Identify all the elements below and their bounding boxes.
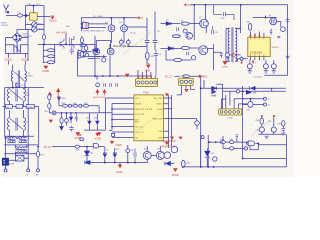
varistor RV1 bbox=[32, 22, 37, 27]
transformer T5 core bbox=[232, 27, 233, 62]
net arrow down bbox=[60, 127, 64, 130]
svg-text:275V: 275V bbox=[38, 28, 43, 30]
svg-text:SG3525: SG3525 bbox=[272, 47, 280, 49]
antenna E1 bbox=[4, 5, 9, 14]
wire bbox=[253, 16, 281, 27]
svg-text:Q21: Q21 bbox=[157, 149, 161, 151]
capacitor C4 bbox=[70, 47, 74, 55]
transformer T2 core bbox=[13, 70, 24, 82]
right feeder vertical bbox=[38, 107, 40, 147]
electrolytic C26 bbox=[263, 64, 268, 69]
label box LF2 bbox=[16, 105, 23, 109]
svg-text:+12V: +12V bbox=[252, 93, 257, 95]
svg-text:C26 100u: C26 100u bbox=[254, 77, 262, 79]
capacitor C31 bbox=[79, 104, 82, 107]
label box LF3 bbox=[26, 105, 34, 109]
wire bbox=[161, 47, 169, 49]
gnd sym2 bbox=[264, 71, 268, 74]
wire bbox=[25, 6, 27, 16]
svg-text:ACIN1: ACIN1 bbox=[5, 59, 13, 62]
transistor Q23 bbox=[171, 146, 178, 153]
svg-text:GND: GND bbox=[145, 69, 151, 72]
dbox DB1 bbox=[93, 144, 98, 148]
rail +HV bbox=[190, 4, 287, 6]
transistor Q10 bbox=[281, 27, 286, 32]
red pwr arrow AGND ic-left bbox=[96, 90, 99, 96]
svg-text:Q20: Q20 bbox=[144, 149, 148, 151]
long bottom bus bbox=[183, 166, 287, 168]
junction bbox=[37, 146, 39, 148]
lower snubber bus bbox=[59, 112, 99, 114]
wire bbox=[87, 147, 148, 163]
pwm controller U3 bbox=[248, 37, 270, 56]
junction bbox=[33, 5, 35, 7]
capacitor C6 bbox=[96, 56, 100, 58]
resistor R61 bbox=[229, 141, 234, 144]
transformer T2 winding left bbox=[11, 65, 12, 82]
diode D5 bbox=[161, 22, 171, 25]
svg-text:R41: R41 bbox=[76, 149, 79, 151]
resistor R15 bbox=[47, 49, 55, 52]
zener diamond D7 bbox=[240, 57, 244, 61]
svg-text:SG3525AN: SG3525AN bbox=[250, 51, 262, 54]
resistor R45 bbox=[183, 75, 190, 78]
svg-text:AGND: AGND bbox=[95, 138, 102, 141]
zener ZD1 bbox=[103, 151, 107, 157]
diode D6 bbox=[168, 47, 173, 50]
optocoupler U5 bbox=[29, 13, 37, 20]
cm choke circle bbox=[236, 90, 239, 93]
red gnd sec bbox=[223, 61, 228, 65]
wire bbox=[5, 82, 44, 88]
junction row bbox=[94, 75, 96, 77]
mosfet Q3 bbox=[108, 25, 115, 32]
comp above agnd bbox=[112, 133, 115, 136]
capacitor C61 bbox=[126, 149, 130, 153]
wire bbox=[17, 28, 44, 30]
svg-text:Q7: Q7 bbox=[199, 17, 202, 19]
choke L6 winding a bbox=[19, 137, 27, 138]
choke L7 winding b bbox=[15, 151, 27, 154]
wire row3 bbox=[4, 136, 38, 169]
gnd sym1 bbox=[248, 71, 252, 74]
stack C cap C52 bbox=[282, 126, 285, 132]
svg-text:R5: R5 bbox=[181, 20, 183, 22]
svg-text:BUXO: BUXO bbox=[157, 104, 163, 106]
junction dots bottom rail bbox=[104, 162, 106, 164]
electrolytic C27 bbox=[271, 64, 276, 69]
svg-text:BUS0 PGND: BUS0 PGND bbox=[93, 97, 106, 99]
top rail bbox=[26, 5, 44, 7]
resistor R16 bbox=[47, 55, 55, 58]
red dot stack B bbox=[273, 115, 275, 117]
svg-text:ACT: ACT bbox=[135, 121, 140, 124]
capacitor C62 bbox=[134, 149, 136, 163]
junction dots snubber bus bbox=[61, 112, 62, 113]
gnd sym3 bbox=[272, 71, 276, 74]
junction dots ladder bbox=[208, 141, 210, 143]
junction bbox=[258, 143, 260, 145]
svg-text:D20: D20 bbox=[86, 118, 89, 120]
capacitor C33 bbox=[69, 126, 73, 132]
wire bbox=[38, 29, 95, 63]
wire loop bbox=[250, 143, 287, 149]
svg-text:PGND: PGND bbox=[172, 175, 179, 177]
svg-text:10D471K: 10D471K bbox=[23, 36, 32, 38]
svg-text:+BUS1: +BUS1 bbox=[49, 20, 57, 22]
svg-text:BLKIN: BLKIN bbox=[135, 103, 142, 105]
capacitor C23 bbox=[270, 29, 272, 35]
wire bbox=[28, 15, 30, 17]
header CON3 bbox=[179, 78, 194, 85]
wire bbox=[6, 45, 29, 58]
terminal PE1 bbox=[4, 169, 7, 172]
wire bbox=[58, 100, 60, 105]
svg-text:Q9: Q9 bbox=[269, 15, 272, 17]
diode D10 bbox=[212, 87, 217, 90]
pwm controller U3 pins top bbox=[250, 32, 264, 38]
capacitor C21 bbox=[177, 27, 179, 31]
wire bbox=[237, 58, 248, 60]
zener ZD2 bbox=[113, 151, 117, 157]
svg-text:+VDD: +VDD bbox=[61, 98, 67, 100]
svg-text:C9: C9 bbox=[159, 54, 161, 56]
connector J1 bbox=[2, 158, 8, 165]
wire bbox=[6, 29, 29, 44]
wire acin leads bbox=[9, 61, 26, 65]
transistor Q8 bbox=[186, 33, 193, 40]
red pwr flag1 bbox=[48, 92, 51, 99]
resistor R41 bbox=[75, 145, 80, 148]
svg-text:ACIN: ACIN bbox=[9, 162, 14, 165]
wire bbox=[190, 47, 199, 49]
svg-text:CON3: CON3 bbox=[180, 76, 185, 78]
terminal J2 bbox=[263, 97, 266, 100]
svg-text:TON CLB: TON CLB bbox=[135, 114, 145, 116]
stack C gnd bbox=[281, 133, 285, 136]
resistor R19 bbox=[85, 46, 88, 51]
svg-text:MDE OVL IPK IPK: MDE OVL IPK IPK bbox=[135, 109, 153, 111]
resistor R21 bbox=[80, 52, 83, 57]
wire bbox=[62, 113, 67, 126]
node LIN square bbox=[7, 11, 9, 13]
electrolytic C17 bbox=[126, 40, 130, 44]
choke L5 core bbox=[7, 138, 15, 141]
choke L7 core bbox=[15, 148, 27, 151]
svg-text:D5: D5 bbox=[166, 20, 168, 22]
diode D30 bbox=[85, 151, 90, 155]
relay K1 bbox=[83, 23, 89, 29]
diode D3 bbox=[93, 49, 98, 52]
transformer T1 core bbox=[15, 45, 20, 53]
svg-text:T5: T5 bbox=[238, 29, 240, 31]
red gnd ic right bbox=[165, 93, 169, 96]
svg-text:C20: C20 bbox=[221, 18, 224, 20]
wire bbox=[189, 23, 199, 25]
diode D20 bbox=[88, 120, 92, 127]
red gnd left chain bbox=[49, 120, 53, 123]
wire drain link bbox=[96, 41, 110, 58]
capacitor C24 bbox=[277, 36, 280, 37]
red pwr arrow PGND ic-left bbox=[103, 90, 106, 96]
red pwr flag2 bbox=[57, 89, 60, 99]
red ticks terminal block bbox=[138, 76, 140, 78]
diode D22 bbox=[69, 117, 73, 120]
ic U1 right pin labels bbox=[153, 97, 163, 139]
svg-text:R31: R31 bbox=[73, 103, 76, 105]
electrolytic C18 bbox=[102, 58, 106, 62]
svg-text:EE19: EE19 bbox=[28, 76, 34, 78]
transformer T5 winding right bbox=[235, 28, 237, 61]
svg-text:+PUMP_AUX: +PUMP_AUX bbox=[161, 145, 175, 148]
capacitor C30 bbox=[69, 104, 72, 107]
choke L5 winding b bbox=[7, 142, 15, 143]
capacitor C34 bbox=[75, 114, 78, 122]
svg-text:+HV: +HV bbox=[187, 4, 192, 7]
red gnd AGND left IC bbox=[95, 133, 100, 136]
red gnd PGND1 bbox=[44, 66, 49, 69]
wire bbox=[9, 154, 29, 160]
resistor R28 bbox=[48, 95, 51, 100]
junction bbox=[250, 98, 252, 100]
junction bbox=[200, 166, 202, 168]
capacitor C7 bbox=[145, 41, 150, 44]
resistor R18 bbox=[80, 38, 83, 43]
wire feeds into IC bbox=[106, 98, 134, 138]
junction dots bottom bus bbox=[213, 166, 215, 168]
pwm controller U3 pins bottom bbox=[250, 57, 264, 61]
junction bbox=[12, 87, 14, 89]
transistor Q21 bbox=[156, 151, 164, 159]
capacitor C10 bbox=[96, 77, 99, 80]
diode D31 bbox=[165, 162, 170, 166]
svg-text:C62: C62 bbox=[130, 150, 133, 152]
wire con3 pins bbox=[177, 86, 195, 95]
transistor Q12 bbox=[191, 56, 195, 60]
resistor R5 bbox=[181, 22, 189, 25]
transformer T5 winding left bbox=[228, 28, 230, 61]
stack B cap C51 bbox=[271, 127, 276, 132]
bridge rectifier BR1 bbox=[12, 33, 22, 43]
resistor R17 bbox=[47, 61, 55, 64]
wire bbox=[37, 15, 50, 17]
capacitor CY1 box bbox=[16, 83, 20, 87]
svg-text:CON5: CON5 bbox=[228, 117, 233, 119]
svg-text:VCC: VCC bbox=[135, 98, 140, 100]
junction bbox=[81, 23, 83, 25]
svg-text:D32: D32 bbox=[211, 153, 214, 155]
capacitor C63 bbox=[236, 134, 238, 139]
wire drops to terminal bbox=[138, 70, 155, 79]
capacitor CX2 bbox=[16, 137, 18, 138]
transformer T5 leads bbox=[226, 28, 241, 61]
wire right vertical bbox=[27, 29, 29, 61]
capacitor C5 bbox=[85, 53, 89, 57]
transformer T4 core bbox=[10, 118, 23, 131]
capacitor C9 bbox=[154, 50, 158, 76]
svg-text:10D471: 10D471 bbox=[1, 25, 9, 27]
svg-text:C61: C61 bbox=[116, 149, 119, 151]
svg-text:R32: R32 bbox=[84, 103, 87, 105]
wire gate feeds bbox=[78, 44, 111, 76]
wire ac_ct bbox=[175, 75, 200, 77]
inverter gate U2B bbox=[78, 55, 83, 59]
svg-text:LF2: LF2 bbox=[17, 107, 20, 109]
red gnd DCDC bbox=[146, 65, 151, 69]
svg-text:DS1: DS1 bbox=[44, 111, 48, 113]
resistor R10 bbox=[181, 46, 189, 49]
wire output bus B bbox=[223, 90, 286, 92]
capacitor CX3 box bbox=[16, 155, 24, 161]
junction bbox=[111, 17, 113, 19]
svg-text:R61: R61 bbox=[230, 139, 233, 141]
junction bbox=[111, 108, 112, 109]
transformer T4 winding right bbox=[23, 112, 25, 131]
red tick left edge bbox=[79, 134, 81, 136]
svg-text:LGB: LGB bbox=[158, 131, 163, 133]
red label +HV top bbox=[185, 4, 187, 6]
mosfet Q11 bbox=[199, 46, 208, 55]
wire bbox=[26, 16, 44, 30]
svg-text:PGND: PGND bbox=[42, 71, 49, 73]
resistor R11 bbox=[174, 58, 182, 61]
net flag +VDD bbox=[58, 97, 61, 100]
bottom stack bus bbox=[258, 133, 286, 135]
wire bbox=[84, 113, 106, 130]
svg-text:R43: R43 bbox=[187, 162, 190, 164]
resistor R29 bbox=[48, 103, 51, 108]
net flag pennant2 bbox=[246, 90, 250, 94]
choke L6 winding b bbox=[19, 142, 27, 143]
red diamond flag bbox=[232, 53, 236, 57]
resistor R2 bbox=[42, 35, 45, 40]
mid bus bbox=[3, 106, 39, 108]
choke L6 core bbox=[19, 138, 27, 141]
ic U1 left pin labels bbox=[135, 98, 153, 139]
capacitor C29 bbox=[186, 52, 188, 55]
resistor R32 bbox=[84, 104, 89, 107]
cap marks right rail bbox=[286, 20, 290, 58]
red dot stack A bbox=[261, 115, 263, 117]
inductor L1 bbox=[17, 14, 22, 17]
svg-text:VGB: VGB bbox=[158, 137, 163, 139]
transformer T3 winding right bbox=[23, 89, 25, 101]
resistor R30 bbox=[63, 104, 68, 107]
gnd AGND red bbox=[97, 132, 102, 136]
svg-text:R8: R8 bbox=[247, 22, 249, 24]
wire bbox=[147, 12, 155, 65]
net flag pennant1 bbox=[212, 90, 216, 94]
wire bbox=[205, 28, 207, 33]
varistor RV3 bbox=[183, 29, 187, 33]
junction bbox=[43, 44, 45, 46]
led DS2 bbox=[213, 157, 217, 161]
wire AC_IN long bbox=[52, 146, 104, 148]
svg-text:CM: CM bbox=[26, 95, 30, 97]
pwr arrow AC top-left bbox=[51, 15, 55, 18]
resistor R22 bbox=[146, 52, 150, 60]
resistor R62 bbox=[229, 147, 234, 150]
wire row2 bbox=[4, 144, 38, 146]
resistor R8 bbox=[248, 24, 251, 31]
svg-text:AC_IN: AC_IN bbox=[44, 146, 52, 149]
electrolytic C25 bbox=[247, 64, 252, 69]
wire bbox=[5, 88, 29, 137]
wire bbox=[82, 18, 109, 31]
svg-text:R30: R30 bbox=[62, 103, 65, 105]
resistor R60 bbox=[220, 141, 225, 144]
svg-text:ACIN2: ACIN2 bbox=[21, 59, 29, 62]
electrolytic C16 bbox=[119, 40, 123, 44]
transformer T1 winding right bbox=[19, 45, 22, 53]
sense resistor small bbox=[80, 138, 83, 141]
transformer T4 winding left bbox=[8, 112, 10, 131]
red gnd PGND left IC bbox=[76, 133, 81, 136]
svg-text:RY-DPDT 8A 250VAC ctrl: RY-DPDT 8A 250VAC ctrl bbox=[83, 29, 105, 32]
red gnd bottom2 bbox=[179, 137, 183, 140]
stack A cap C50 bbox=[259, 127, 264, 132]
choke L7 winding a bbox=[15, 146, 27, 149]
svg-text:AGND: AGND bbox=[116, 171, 123, 174]
svg-text:C40: C40 bbox=[246, 110, 249, 112]
label box LF1 bbox=[6, 105, 13, 109]
wire bbox=[214, 52, 228, 58]
svg-text:Q4: Q4 bbox=[119, 22, 122, 24]
wire bbox=[166, 50, 191, 60]
svg-text:C22: C22 bbox=[215, 32, 218, 34]
wire bbox=[82, 36, 95, 59]
ic U1 right pin wires bbox=[164, 98, 197, 138]
svg-text:250VAC: 250VAC bbox=[27, 106, 35, 109]
wire bbox=[105, 147, 115, 163]
choke L5 winding a bbox=[7, 137, 15, 138]
mosfet Q6 bbox=[107, 48, 114, 55]
svg-text:R60: R60 bbox=[220, 139, 223, 141]
red tick zener diamond bbox=[241, 61, 242, 63]
capacitor C22 bbox=[211, 26, 213, 34]
transistor Q22 bbox=[164, 152, 171, 159]
electrolytic C12 bbox=[96, 83, 100, 87]
pilot circle bbox=[201, 136, 204, 139]
vertical rails bottom bbox=[201, 135, 287, 167]
red gnd con3 bbox=[184, 89, 188, 92]
capacitor C13 bbox=[104, 83, 106, 87]
gnd blue bbox=[264, 136, 268, 139]
svg-text:AC_CT: AC_CT bbox=[165, 75, 173, 78]
svg-text:R50: R50 bbox=[255, 120, 258, 122]
diode D33 bbox=[85, 161, 90, 165]
wire bbox=[33, 6, 35, 13]
terminal small bbox=[244, 147, 247, 150]
red gnd ic bottom-right bbox=[165, 142, 169, 145]
wire ladder right bbox=[223, 136, 250, 148]
capacitor CX1 bbox=[5, 136, 7, 140]
wire bbox=[59, 106, 112, 113]
terminal J3 bbox=[263, 103, 266, 106]
schematic grid area bbox=[3, 0, 293, 177]
svg-text:D21: D21 bbox=[94, 118, 97, 120]
stack B wire bbox=[273, 117, 275, 126]
transformer T2 winding right bbox=[25, 65, 26, 82]
capacitor C8 bbox=[153, 41, 158, 44]
capacitor C30 bbox=[220, 52, 223, 58]
inverter gate U2A bbox=[78, 50, 83, 54]
wire bbox=[43, 6, 45, 17]
red mark U3 below bbox=[252, 60, 254, 63]
red gnd bottom bbox=[118, 165, 123, 169]
transistor Q1 bbox=[60, 39, 64, 49]
fuse F1 bbox=[25, 14, 28, 17]
